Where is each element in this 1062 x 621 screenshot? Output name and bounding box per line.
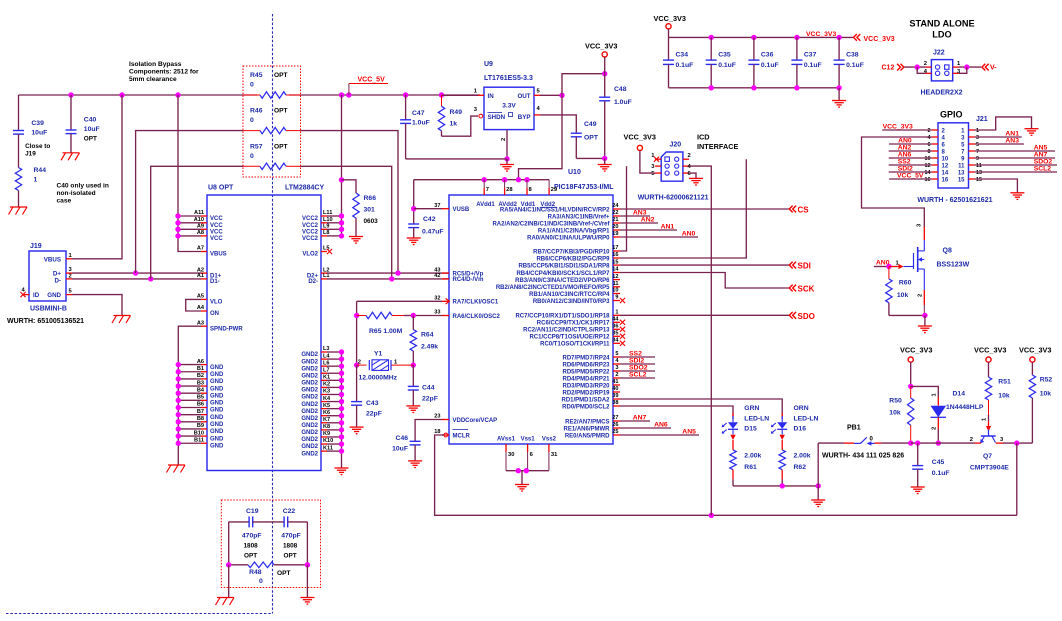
wire U10 Vss bus to ground bbox=[506, 468, 549, 485]
svg-text:9: 9 bbox=[615, 295, 618, 301]
svg-text:AN2: AN2 bbox=[641, 217, 655, 224]
svg-text:10uF: 10uF bbox=[31, 130, 47, 137]
resistor R49 bbox=[438, 95, 462, 136]
svg-text:2: 2 bbox=[688, 153, 691, 159]
svg-text:1N4448HLP: 1N4448HLP bbox=[946, 404, 984, 411]
wire J21 pin4 to Q8 gate path bbox=[862, 137, 933, 227]
svg-text:GND: GND bbox=[210, 429, 224, 435]
wire C22/R48 right node bbox=[305, 522, 310, 598]
svg-text:1: 1 bbox=[976, 128, 979, 134]
svg-text:L10: L10 bbox=[323, 217, 333, 223]
svg-text:AN6: AN6 bbox=[898, 152, 912, 159]
svg-text:0.1uF: 0.1uF bbox=[932, 470, 950, 477]
svg-text:14: 14 bbox=[612, 267, 619, 273]
U10 pin 1 RC7/CCP10/RX1/DT1/SDO1/RP18 bbox=[515, 310, 620, 320]
U10 pin 40 RD2/PMD2/RP19 bbox=[562, 386, 620, 396]
svg-text:40: 40 bbox=[612, 386, 618, 392]
U8 pin A1 D1- bbox=[197, 273, 220, 285]
svg-text:15: 15 bbox=[958, 177, 965, 183]
svg-text:18: 18 bbox=[434, 429, 440, 435]
U10 pin 3 RD5/PMD5/RP22 bbox=[562, 365, 620, 375]
svg-text:STAND ALONE: STAND ALONE bbox=[909, 19, 974, 29]
net label AN3 bbox=[620, 210, 650, 217]
power VCC_3V3 above R51 bbox=[974, 346, 1006, 378]
ground below C48 bbox=[598, 158, 612, 171]
svg-text:K1: K1 bbox=[323, 375, 330, 381]
svg-text:Y1: Y1 bbox=[374, 351, 383, 358]
U8 pin L5 VLO2 bbox=[302, 246, 329, 258]
svg-text:Q7: Q7 bbox=[983, 453, 992, 460]
U8 pin B6 GND bbox=[197, 402, 224, 414]
U10 pin 43 RC5/D+/Vp bbox=[434, 267, 483, 277]
svg-text:LDO: LDO bbox=[932, 30, 951, 40]
svg-text:Q8: Q8 bbox=[943, 248, 952, 255]
U8 pin B8 GND bbox=[197, 416, 224, 428]
svg-text:GND: GND bbox=[210, 436, 224, 442]
svg-text:VLO2: VLO2 bbox=[302, 252, 318, 258]
svg-text:BYP: BYP bbox=[518, 114, 531, 121]
svg-text:D-: D- bbox=[54, 277, 61, 284]
svg-text:2: 2 bbox=[918, 294, 924, 297]
svg-text:10k: 10k bbox=[998, 393, 1010, 400]
svg-text:ID: ID bbox=[33, 292, 40, 299]
svg-text:30: 30 bbox=[508, 452, 514, 458]
U10 pin 24 RA5/AN4/C1INC/SS1/HLVDIN/RCV/RP2 bbox=[500, 203, 620, 213]
resistor R50 bbox=[889, 386, 914, 445]
net label SDO2 bbox=[620, 365, 655, 372]
svg-text:15: 15 bbox=[976, 177, 982, 183]
svg-text:A1: A1 bbox=[197, 273, 204, 279]
svg-text:C43: C43 bbox=[366, 400, 379, 407]
net label AN0 at Q8 bbox=[874, 260, 904, 270]
svg-text:RD3/PMD3/RP20: RD3/PMD3/RP20 bbox=[562, 383, 610, 389]
net label SCL2 bbox=[620, 372, 655, 379]
svg-text:RB5/CCP5/KBI1/SDI1/SDA1/RP8: RB5/CCP5/KBI1/SDI1/SDA1/RP8 bbox=[518, 263, 610, 269]
pushbutton PB1 bbox=[818, 425, 911, 486]
svg-text:RD0/PMD0/SCL2: RD0/PMD0/SCL2 bbox=[562, 404, 610, 410]
svg-text:RC2/AN11/C2IND/CTPLS/RP13: RC2/AN11/C2IND/CTPLS/RP13 bbox=[523, 328, 610, 334]
U10 top pin 29 bbox=[549, 180, 558, 195]
svg-text:VCC_3V3: VCC_3V3 bbox=[806, 31, 836, 38]
svg-text:RB1/AN10/C3INC/RTCC/RP4: RB1/AN10/C3INC/RTCC/RP4 bbox=[529, 292, 610, 298]
svg-text:V-: V- bbox=[990, 65, 997, 72]
svg-text:R45: R45 bbox=[250, 72, 263, 79]
ground below C19/R48 bbox=[216, 598, 235, 606]
J21 pins 2/1 bbox=[928, 128, 980, 134]
svg-text:RC0/T1OSO/T1CKI/RP11: RC0/T1OSO/T1CKI/RP11 bbox=[540, 342, 610, 348]
U10 pin 11 RB2/AN8/C2INC/CTED1/VMO/REFO/RP5 bbox=[496, 281, 620, 291]
wire D+ net bbox=[72, 270, 201, 275]
svg-text:16: 16 bbox=[942, 177, 949, 183]
svg-text:RD1/PMD1/SDA2: RD1/PMD1/SDA2 bbox=[561, 397, 610, 403]
svg-text:A4: A4 bbox=[197, 305, 205, 311]
svg-text:GND2: GND2 bbox=[301, 409, 318, 415]
U10 pin 17 RB7/CCP7/KBI3/PGD/RP10 bbox=[533, 245, 620, 255]
J21 pins 4/3 bbox=[928, 135, 980, 141]
svg-text:RB6/CCP6/KBI2/PGC/RP9: RB6/CCP6/KBI2/PGC/RP9 bbox=[536, 256, 610, 262]
svg-text:SDI: SDI bbox=[798, 262, 811, 271]
svg-text:R64: R64 bbox=[421, 332, 434, 339]
resistor R45 bbox=[243, 72, 301, 98]
wire D- bypass via R57 bbox=[151, 166, 392, 279]
svg-text:SS2: SS2 bbox=[629, 351, 642, 358]
svg-text:IN: IN bbox=[488, 93, 495, 100]
connector J21 header bbox=[917, 123, 992, 204]
svg-text:14: 14 bbox=[925, 170, 931, 176]
wire VCC_3V3 to J20 pin5 bbox=[640, 151, 655, 174]
svg-text:C48: C48 bbox=[614, 86, 627, 93]
svg-text:U10: U10 bbox=[568, 169, 581, 176]
U10 pin 5 RD7/PMD7/RP24 bbox=[562, 351, 620, 361]
U10 pin 39 RD1/PMD1/SDA2 bbox=[561, 393, 620, 403]
svg-text:C19: C19 bbox=[246, 508, 259, 515]
port SDI bbox=[789, 262, 811, 271]
svg-text:0.1uF: 0.1uF bbox=[804, 62, 822, 69]
capacitor C34 bbox=[663, 37, 693, 87]
U8 pin B4 GND bbox=[197, 387, 224, 399]
svg-text:10k: 10k bbox=[1040, 391, 1052, 398]
svg-text:GPIO: GPIO bbox=[940, 110, 963, 120]
svg-text:12.0000MHz: 12.0000MHz bbox=[359, 375, 398, 382]
svg-text:GND2: GND2 bbox=[301, 373, 318, 379]
OPT bypass dashed box bbox=[243, 66, 301, 177]
svg-text:LED-LN: LED-LN bbox=[744, 415, 769, 422]
net label SCL2 at J21 bbox=[975, 166, 1058, 173]
ground below cap bank bbox=[832, 101, 846, 108]
U8 pin L11 VCC2 bbox=[302, 210, 332, 222]
U9 pin 3 SHDN bbox=[442, 107, 483, 136]
U10 bottom pin 30 bbox=[506, 444, 514, 471]
note C40 usage bbox=[57, 183, 109, 205]
svg-text:41: 41 bbox=[612, 379, 618, 385]
power VCC_3V3 above C48 bbox=[585, 42, 617, 74]
ground below C43 bbox=[350, 427, 364, 434]
svg-text:1.0uF: 1.0uF bbox=[412, 120, 430, 127]
svg-text:VCC_3V3: VCC_3V3 bbox=[624, 133, 656, 142]
svg-text:OPT: OPT bbox=[584, 135, 599, 142]
U8 pin B11 GND bbox=[194, 437, 224, 449]
net label AN7 at J21 bbox=[975, 152, 1056, 159]
svg-text:6: 6 bbox=[928, 142, 931, 148]
wire D+ bypass via R46 bbox=[136, 131, 398, 274]
svg-text:44: 44 bbox=[612, 317, 619, 323]
svg-text:C49: C49 bbox=[584, 121, 597, 128]
svg-text:GND2: GND2 bbox=[301, 451, 318, 457]
svg-text:GND2: GND2 bbox=[301, 381, 318, 387]
U8 pin K5 GND2 bbox=[301, 403, 330, 415]
svg-text:LT1761ES5-3.3: LT1761ES5-3.3 bbox=[484, 75, 533, 82]
svg-text:L8: L8 bbox=[323, 230, 330, 236]
svg-text:ORN: ORN bbox=[794, 405, 809, 412]
U10 pin 16 RB6/CCP6/KBI2/PGC/RP9 bbox=[536, 252, 620, 262]
U8 pin L6 GND2 bbox=[301, 360, 329, 372]
capacitor C40 bbox=[66, 95, 100, 153]
svg-text:B6: B6 bbox=[197, 402, 204, 408]
U8 pin L10 VCC2 bbox=[302, 217, 333, 229]
net label SS2 bbox=[620, 351, 655, 358]
wire SDI net bbox=[620, 264, 789, 266]
U9 pin 2 GND bbox=[406, 130, 510, 165]
title ICD INTERFACE bbox=[697, 133, 738, 151]
wire U9 OUT down to U10 Vdd rail bbox=[519, 95, 563, 179]
svg-text:22pF: 22pF bbox=[366, 411, 382, 418]
svg-text:34: 34 bbox=[612, 338, 619, 344]
wire U8 VLO/ON tie bbox=[186, 299, 201, 311]
U9 pin 4 BYP / capacitor C49 bbox=[534, 106, 607, 161]
net label AN3 at J21 bbox=[975, 138, 1024, 145]
svg-text:A5: A5 bbox=[197, 294, 204, 300]
svg-text:10: 10 bbox=[612, 288, 618, 294]
svg-text:RD5/PMD5/RP22: RD5/PMD5/RP22 bbox=[562, 369, 610, 375]
U8 pin K9 GND2 bbox=[301, 431, 330, 443]
net label SDO2 at J21 bbox=[975, 159, 1058, 166]
wire OSC1 net bbox=[354, 301, 442, 368]
svg-text:R61: R61 bbox=[744, 464, 757, 471]
svg-text:SCK: SCK bbox=[798, 285, 815, 294]
capacitor C43 bbox=[351, 365, 382, 427]
svg-text:VBUS: VBUS bbox=[210, 252, 227, 258]
U8 pin A8 VCC bbox=[197, 230, 223, 242]
svg-text:32: 32 bbox=[434, 296, 440, 302]
resistor R61 bbox=[730, 450, 762, 486]
svg-text:VCC: VCC bbox=[210, 216, 223, 222]
U10 pin 10 RB1/AN10/C3INC/RTCC/RP4 bbox=[529, 288, 620, 298]
U8 pin A3 SPND-PWR bbox=[197, 320, 243, 332]
svg-text:11: 11 bbox=[976, 163, 982, 169]
net label AN5 at J21 bbox=[975, 145, 1056, 152]
svg-text:GND2: GND2 bbox=[301, 402, 318, 408]
svg-text:3.3V: 3.3V bbox=[502, 103, 516, 110]
svg-text:2: 2 bbox=[970, 437, 973, 443]
svg-text:C36: C36 bbox=[761, 52, 774, 59]
svg-text:A7: A7 bbox=[197, 246, 204, 252]
svg-text:2.00k: 2.00k bbox=[794, 453, 811, 460]
power label VCC_5V bbox=[349, 77, 388, 96]
svg-text:C47: C47 bbox=[412, 110, 425, 117]
svg-text:5: 5 bbox=[615, 351, 618, 357]
svg-text:C12: C12 bbox=[882, 65, 895, 72]
svg-text:B3: B3 bbox=[197, 380, 204, 386]
U8 pin L3 GND2 bbox=[301, 346, 329, 358]
svg-text:36: 36 bbox=[612, 324, 618, 330]
U8 pin B10 GND bbox=[194, 430, 224, 442]
svg-text:K6: K6 bbox=[323, 410, 330, 416]
svg-text:J22: J22 bbox=[933, 50, 945, 57]
svg-text:C40 only used in: C40 only used in bbox=[57, 183, 109, 190]
net label AN1 at J21 bbox=[975, 131, 1022, 138]
U10 bottom pin 6 bbox=[528, 444, 534, 471]
svg-text:J19: J19 bbox=[25, 151, 36, 158]
svg-text:1808: 1808 bbox=[283, 543, 298, 550]
svg-text:GRN: GRN bbox=[744, 405, 759, 412]
capacitor C45 bbox=[912, 443, 949, 487]
svg-text:RA2/AN2/C2INB/C1IND/C3INB/Vref: RA2/AN2/C2INB/C1IND/C3INB/Vref-/CVref bbox=[492, 221, 610, 227]
wire RD1 to LED D16 bbox=[620, 399, 782, 419]
svg-text:GND2: GND2 bbox=[301, 366, 318, 372]
U8 pin L1 D2- bbox=[308, 273, 329, 285]
svg-text:2: 2 bbox=[69, 274, 72, 280]
svg-text:RC6/CCP9/TX1/CK1/RP17: RC6/CCP9/TX1/CK1/RP17 bbox=[537, 321, 610, 327]
net label AN0 bbox=[620, 231, 698, 238]
U8 pin A7 VBUS bbox=[197, 246, 227, 258]
svg-text:2: 2 bbox=[924, 61, 927, 67]
ground below J20 bbox=[689, 178, 703, 185]
svg-text:D15: D15 bbox=[744, 426, 757, 433]
J21 pins 6/5 bbox=[928, 142, 980, 148]
U10 pin 33 RA6/CLK0/OSC2 bbox=[434, 310, 500, 320]
wire VBUS/VCC_5V top rail bbox=[19, 94, 481, 96]
pin 5 GND stub bbox=[66, 289, 73, 295]
ground below U10 Vss bbox=[515, 485, 529, 492]
svg-text:39: 39 bbox=[612, 393, 618, 399]
svg-text:9: 9 bbox=[976, 156, 979, 162]
J21 pins 10/9 bbox=[925, 156, 980, 162]
U9 pin 1 IN bbox=[442, 89, 485, 96]
svg-text:14: 14 bbox=[942, 170, 949, 176]
svg-text:VCC_3V3: VCC_3V3 bbox=[654, 14, 686, 23]
U8 pin B1 GND bbox=[197, 366, 224, 378]
svg-text:VCC_3V3: VCC_3V3 bbox=[864, 36, 895, 43]
svg-text:A11: A11 bbox=[194, 210, 204, 216]
U10 pin 41 RD3/PMD3/RP20 bbox=[562, 379, 620, 389]
J21 pins 16/15 bbox=[925, 177, 983, 183]
svg-text:RD6/PMD6/RP23: RD6/PMD6/RP23 bbox=[562, 362, 610, 368]
LED D16 ORN bbox=[771, 405, 819, 450]
net label AN2 bbox=[620, 217, 658, 224]
svg-text:16: 16 bbox=[612, 252, 618, 258]
svg-text:A10: A10 bbox=[194, 217, 204, 223]
U8 pin K3 GND2 bbox=[301, 389, 330, 401]
svg-text:4: 4 bbox=[928, 135, 931, 141]
capacitor C35 bbox=[706, 37, 736, 87]
U10 pin 26 RE1/AN6/PMWR bbox=[563, 422, 620, 432]
port SDO bbox=[789, 312, 815, 321]
svg-text:GND: GND bbox=[47, 292, 61, 299]
svg-text:C22: C22 bbox=[283, 508, 296, 515]
svg-text:Close to: Close to bbox=[25, 143, 50, 150]
U10 pin 27 RE2/AN7/PMCS bbox=[565, 415, 620, 425]
U10 no-connect bbox=[620, 341, 625, 346]
U10 pin 36 RC2/AN11/C2IND/CTPLS/RP13 bbox=[523, 324, 620, 334]
wire U8 right GND2 bus bbox=[327, 349, 344, 468]
svg-text:B4: B4 bbox=[197, 387, 205, 393]
capacitor C22 bbox=[253, 508, 308, 560]
mcu U10 PIC18F47J53-I/ML bbox=[449, 169, 614, 444]
svg-text:RA7/CLKI/OSC1: RA7/CLKI/OSC1 bbox=[453, 300, 499, 306]
svg-text:AN0: AN0 bbox=[682, 231, 696, 238]
svg-text:RA3/AN3/C1INB/Vref+: RA3/AN3/C1INB/Vref+ bbox=[548, 214, 610, 220]
capacitor C19 bbox=[229, 508, 262, 560]
svg-text:GND2: GND2 bbox=[301, 416, 318, 422]
U8 pin K11 GND2 bbox=[301, 445, 333, 457]
U10 pin 19 RA0/AN0/C1INA/ULPWU/RP0 bbox=[527, 231, 620, 241]
capacitor C46 bbox=[392, 420, 442, 461]
U8 pin L9 VCC2 bbox=[302, 224, 330, 236]
svg-text:27: 27 bbox=[612, 415, 618, 421]
wire J21 pin1 to ground bbox=[975, 117, 1032, 130]
svg-text:GND: GND bbox=[210, 415, 224, 421]
svg-text:3: 3 bbox=[615, 365, 618, 371]
svg-text:R50: R50 bbox=[889, 398, 902, 405]
resistor R62 bbox=[779, 450, 811, 486]
svg-text:11: 11 bbox=[613, 281, 619, 287]
U10 pin 14 RB4/CCP4/KBI0/SCK1/SCL1/RP7 bbox=[516, 267, 620, 277]
svg-text:RA5/AN4/C1INC/SS1/HLVDIN/RCV/R: RA5/AN4/C1INC/SS1/HLVDIN/RCV/RP2 bbox=[500, 207, 610, 213]
svg-text:R52: R52 bbox=[1040, 377, 1053, 384]
ground below J19 bbox=[112, 316, 131, 324]
svg-text:0.47uF: 0.47uF bbox=[422, 229, 444, 236]
svg-text:24: 24 bbox=[612, 203, 619, 209]
J20 pin stubs bbox=[651, 153, 691, 177]
svg-text:0: 0 bbox=[259, 578, 263, 585]
svg-text:C37: C37 bbox=[804, 52, 817, 59]
port C12 bbox=[882, 64, 904, 72]
svg-text:7: 7 bbox=[976, 149, 979, 155]
power VCC_3V3 at J20 bbox=[624, 133, 656, 151]
svg-text:C38: C38 bbox=[846, 52, 859, 59]
svg-text:13: 13 bbox=[958, 170, 965, 176]
U9 pin 5 OUT wire bbox=[534, 71, 607, 98]
wire U8 left GND bus bbox=[176, 362, 201, 465]
svg-text:D16: D16 bbox=[794, 426, 807, 433]
svg-text:VCC2: VCC2 bbox=[302, 216, 319, 222]
svg-text:VLO: VLO bbox=[210, 300, 223, 306]
svg-text:R65 1.00M: R65 1.00M bbox=[369, 328, 403, 335]
svg-text:12: 12 bbox=[612, 274, 618, 280]
wire C19/R48 left node bbox=[226, 522, 231, 598]
svg-text:OPT: OPT bbox=[277, 570, 291, 577]
svg-text:GND2: GND2 bbox=[301, 444, 318, 450]
title STAND ALONE LDO bbox=[909, 19, 974, 40]
pin 1 VBUS stub bbox=[66, 253, 73, 259]
wire CS net bbox=[620, 208, 789, 210]
svg-text:RB3/AN9/C3INA/CTED2/VPO/RP6: RB3/AN9/C3INA/CTED2/VPO/RP6 bbox=[515, 278, 610, 284]
svg-text:11: 11 bbox=[958, 163, 965, 169]
pin 2 D- stub bbox=[66, 274, 72, 280]
svg-text:0: 0 bbox=[250, 153, 254, 160]
ground at J21 pin1 bbox=[1025, 129, 1039, 136]
U10 top pin 7 bbox=[484, 180, 489, 195]
svg-text:VCC_3V3: VCC_3V3 bbox=[974, 346, 1006, 355]
wire U8 VCC pins to rail bbox=[175, 95, 201, 252]
U8 pin A2 D1+ bbox=[197, 267, 222, 279]
svg-text:12: 12 bbox=[942, 163, 949, 169]
svg-text:RC4/D-/Vm: RC4/D-/Vm bbox=[453, 277, 484, 283]
ground below R44 bbox=[9, 207, 28, 215]
svg-text:5: 5 bbox=[976, 142, 979, 148]
resistor R60 bbox=[886, 267, 912, 316]
svg-text:AN6: AN6 bbox=[654, 422, 668, 429]
U10 no-connect bbox=[620, 334, 625, 339]
svg-text:J20: J20 bbox=[670, 142, 682, 149]
node junctions on top rail bbox=[68, 92, 444, 97]
wire U8 VCC2 pins bus bbox=[327, 95, 344, 239]
U10 pin 18 MCLR bbox=[434, 429, 470, 439]
svg-text:31: 31 bbox=[551, 452, 558, 458]
wire J21 pin15 to ground bbox=[975, 179, 1018, 193]
pin 3 D+ stub bbox=[66, 267, 73, 273]
ground below Q8 bbox=[918, 326, 932, 333]
svg-text:10k: 10k bbox=[897, 292, 909, 299]
U10 pin 42 RC4/D-/Vm bbox=[434, 273, 483, 283]
resistor R44 bbox=[15, 167, 46, 207]
net label AN7 bbox=[620, 415, 650, 422]
U10 pin 44 RC6/CCP9/TX1/CK1/RP17 bbox=[537, 317, 620, 327]
U8 pin A4 ON bbox=[197, 305, 219, 317]
wire PGD to J20 pin3 bbox=[620, 166, 627, 251]
net label AN2 at J21 bbox=[889, 145, 932, 152]
J21 pins 8/7 bbox=[928, 149, 980, 155]
